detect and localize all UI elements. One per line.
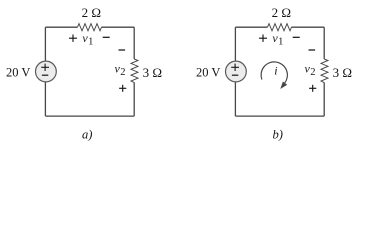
resistor 3ohm (b) zigzag <box>321 59 328 83</box>
svg-text:i: i <box>274 64 277 78</box>
voltage source (b) minus terminal mark <box>232 74 238 76</box>
svg-text:20 V: 20 V <box>6 66 30 80</box>
svg-text:v1: v1 <box>272 31 283 48</box>
polarity minus of v1 (b) <box>293 36 300 38</box>
mesh current arrow i (b) arc <box>261 62 287 83</box>
voltage source (a) minus terminal mark <box>42 74 48 76</box>
wire: circuit a top-right segment <box>102 26 135 28</box>
voltage source 20V (a) circle <box>36 61 57 82</box>
wire: circuit a right side bottom segment <box>133 83 135 117</box>
voltage source 20V (b) circle <box>226 61 247 82</box>
wire: circuit b right side top segment <box>323 27 325 59</box>
svg-text:3 Ω: 3 Ω <box>333 65 352 80</box>
svg-text:2 Ω: 2 Ω <box>272 5 291 20</box>
svg-text:b): b) <box>273 128 283 142</box>
resistor 2ohm (a) zigzag <box>78 24 102 31</box>
svg-text:20 V: 20 V <box>196 66 220 80</box>
mesh current arrow i (b) arrowhead <box>280 82 287 90</box>
svg-text:a): a) <box>82 128 92 142</box>
wire: circuit b top-right segment <box>292 26 325 28</box>
polarity minus of v2 (a) <box>119 49 126 51</box>
voltage source (a) plus terminal mark <box>41 66 49 68</box>
svg-text:3 Ω: 3 Ω <box>143 65 162 80</box>
polarity plus of v1 (a) <box>69 37 77 39</box>
wire: circuit b left side <box>234 27 236 116</box>
resistor 3ohm (a) zigzag <box>131 59 138 83</box>
svg-text:v2: v2 <box>305 61 316 78</box>
voltage source (b) plus terminal mark <box>231 66 239 68</box>
wire: circuit b bottom <box>235 115 324 117</box>
polarity plus of v2 (b) <box>309 87 316 89</box>
svg-text:v1: v1 <box>82 31 93 48</box>
wire: circuit b right side bottom segment <box>323 83 325 117</box>
polarity minus of v2 (b) <box>309 49 316 51</box>
polarity plus of v2 (a) <box>119 87 126 89</box>
wire: circuit b top-left segment <box>235 26 267 28</box>
wire: circuit a left side <box>44 27 46 116</box>
polarity plus of v1 (b) <box>259 37 267 39</box>
wire: circuit a right side top segment <box>133 27 135 59</box>
wire: circuit a top-left segment <box>45 26 77 28</box>
wire: circuit a bottom <box>45 115 134 117</box>
polarity minus of v1 (a) <box>103 36 110 38</box>
resistor 2ohm (b) zigzag <box>268 24 292 31</box>
svg-text:v2: v2 <box>115 61 126 78</box>
svg-text:2 Ω: 2 Ω <box>82 5 101 20</box>
